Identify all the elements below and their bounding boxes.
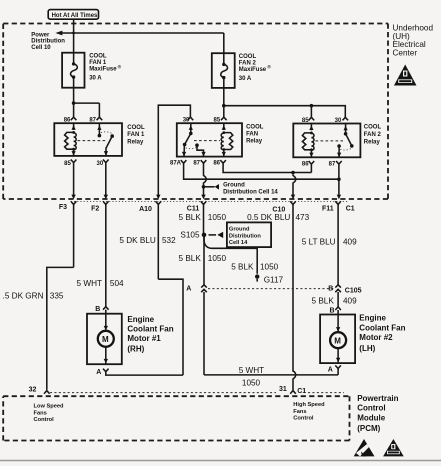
svg-text:COOL: COOL <box>364 125 382 131</box>
wire feed to fuse 2 <box>223 33 225 53</box>
svg-text:.5 DK GRN: .5 DK GRN <box>3 291 44 300</box>
svg-text:1050: 1050 <box>260 262 279 271</box>
wire fuse2 down to feed node <box>223 88 225 117</box>
wire label 5 BLK 1050 ground branch <box>231 262 278 271</box>
wire fuse1 to relay1 split <box>72 88 100 117</box>
wire label .5 DK GRN 335 <box>3 291 64 300</box>
connector dotted line under UH border <box>74 201 348 203</box>
relay K1 COOL FAN 1 Relay <box>54 117 122 167</box>
warning triangle icon UH <box>394 65 417 86</box>
wire 5 WHT 1050 bottom bus <box>204 374 338 376</box>
svg-text:85: 85 <box>64 161 71 167</box>
svg-text:C105: C105 <box>345 288 362 295</box>
PCM pin 32 caret <box>29 387 50 394</box>
svg-text:5 BLK: 5 BLK <box>178 254 201 263</box>
coil with parallel resistor <box>310 124 312 131</box>
svg-text:Fans: Fans <box>293 409 306 415</box>
svg-text:FAN 2: FAN 2 <box>364 132 382 138</box>
svg-text:5 WHT: 5 WHT <box>239 366 264 375</box>
svg-text:Powertrain: Powertrain <box>357 394 398 403</box>
label COOL FAN Relay <box>246 124 264 144</box>
node fuse2 feed <box>222 104 226 108</box>
svg-text:MaxiFuse: MaxiFuse <box>89 67 117 73</box>
svg-text:473: 473 <box>296 213 310 222</box>
connector C11 <box>187 201 207 235</box>
svg-text:(RH): (RH) <box>127 344 144 353</box>
branch S105 to ground G117 <box>204 237 257 274</box>
svg-text:Control: Control <box>357 404 385 413</box>
svg-text:Relay: Relay <box>246 139 263 145</box>
wire label 5 WHT 1050 <box>239 366 264 388</box>
wire 532 jog right and down to motor1 A line <box>158 279 183 375</box>
svg-text:87A: 87A <box>170 161 182 167</box>
label fuse 2 <box>239 54 271 82</box>
dashed coil link <box>316 140 344 142</box>
pin 87 caret <box>97 117 103 120</box>
svg-text:F2: F2 <box>91 206 99 213</box>
svg-text:335: 335 <box>50 291 64 300</box>
svg-text:1050: 1050 <box>208 213 227 222</box>
svg-text:85: 85 <box>302 118 309 124</box>
wire relay1 pin85 down to F3 <box>71 163 75 200</box>
relay K3 COOL FAN 2 Relay <box>293 117 360 167</box>
wire label 5 DK BLU 532 <box>119 236 176 245</box>
svg-text:C11: C11 <box>187 205 200 212</box>
svg-text:Distribution: Distribution <box>229 233 261 239</box>
svg-text:85: 85 <box>214 118 221 124</box>
svg-text:Engine: Engine <box>359 314 386 323</box>
svg-text:A: A <box>96 369 101 376</box>
label Underhood (UH) Electrical Center <box>393 24 434 58</box>
power feed arrow line to Power Distribution <box>55 31 223 36</box>
pin 30 caret <box>188 117 194 120</box>
wire relay2 87A to high-speed bus <box>184 163 338 179</box>
motor M1 Engine Coolant Fan Motor #1 (RH) <box>87 306 122 376</box>
svg-text:86: 86 <box>213 161 220 167</box>
svg-text:87: 87 <box>329 161 336 167</box>
svg-text:Relay: Relay <box>127 139 144 145</box>
label High Speed Fans Control <box>293 402 325 422</box>
dotted travel arc <box>340 149 351 150</box>
wire A10 riser up and over to relay2 pin 30 <box>158 105 190 195</box>
label Engine Coolant Fan Motor #2 (LH) <box>359 314 405 353</box>
svg-text:®: ® <box>118 64 122 71</box>
svg-text:5 WHT: 5 WHT <box>77 279 102 288</box>
svg-text:Control: Control <box>293 416 314 422</box>
svg-text:B: B <box>95 306 100 313</box>
svg-text:5 DK BLU: 5 DK BLU <box>119 236 155 245</box>
svg-text:Motor #2: Motor #2 <box>359 333 393 342</box>
connector C10 <box>272 201 295 372</box>
fuse F1 COOL FAN 1 MaxiFuse 30A <box>62 53 84 88</box>
svg-text:F3: F3 <box>59 204 67 211</box>
svg-text:30: 30 <box>97 161 104 167</box>
dashed coil link <box>78 140 108 142</box>
svg-text:High Speed: High Speed <box>293 402 325 408</box>
svg-text:COOL: COOL <box>89 54 107 60</box>
svg-text:Low Speed: Low Speed <box>34 404 65 410</box>
svg-text:Distribution Cell 14: Distribution Cell 14 <box>223 190 278 196</box>
connector F11 <box>322 201 341 285</box>
label Low Speed Fans Control <box>34 404 65 424</box>
svg-text:0.5 DK BLU: 0.5 DK BLU <box>247 213 290 222</box>
svg-text:5 BLK: 5 BLK <box>311 297 334 306</box>
feed line to relay3 <box>224 106 345 117</box>
svg-text:B: B <box>330 307 335 314</box>
svg-text:31: 31 <box>279 386 287 393</box>
node relay3 87 junction <box>337 177 341 181</box>
svg-text:A10: A10 <box>139 206 152 213</box>
svg-text:30 A: 30 A <box>239 76 252 82</box>
coil with parallel resistor <box>73 123 75 130</box>
svg-text:5 BLK: 5 BLK <box>231 262 254 271</box>
splice S105 <box>180 231 206 240</box>
svg-text:86: 86 <box>302 161 309 167</box>
svg-text:Cell 10: Cell 10 <box>31 45 51 51</box>
wire label 5 BLK 409 below C105 <box>311 297 357 306</box>
contact 87 with arrow <box>337 144 341 148</box>
svg-text:Module: Module <box>357 413 386 422</box>
svg-text:FAN 1: FAN 1 <box>127 132 145 138</box>
wire label 5 BLK 1050 below S105 <box>178 254 226 263</box>
svg-text:87: 87 <box>89 118 96 124</box>
relay K2 COOL FAN Relay <box>170 117 242 167</box>
svg-text:MaxiFuse: MaxiFuse <box>239 67 267 73</box>
svg-text:87: 87 <box>193 161 200 167</box>
ESD warning icon <box>354 439 375 456</box>
wire A10 arrowhead at border <box>156 195 160 200</box>
pin 87A caret <box>181 160 187 163</box>
reference arrow to ground distribution box <box>209 232 224 238</box>
svg-text:30 A: 30 A <box>89 75 102 81</box>
svg-text:COOL: COOL <box>127 125 145 131</box>
wire C10 down with hop over high-speed bus <box>291 174 296 199</box>
pin 30 caret <box>343 117 349 120</box>
svg-text:30: 30 <box>335 118 342 124</box>
svg-text:®: ® <box>267 63 271 70</box>
svg-text:Power: Power <box>31 33 50 39</box>
node C10 tap <box>291 171 295 175</box>
pin 85 caret <box>309 117 315 120</box>
svg-text:30: 30 <box>183 118 190 124</box>
svg-text:FAN 1: FAN 1 <box>89 60 107 66</box>
label fuse 1 <box>89 54 121 82</box>
dotted travel arc <box>101 132 112 133</box>
svg-text:532: 532 <box>162 236 176 245</box>
svg-text:1050: 1050 <box>208 254 227 263</box>
dashed coil link <box>194 140 220 142</box>
wire feed to fuse 1 <box>73 33 75 53</box>
connector A10 <box>139 201 161 279</box>
pin 85 caret <box>221 117 227 120</box>
node: feed junction above fuse 1 <box>72 32 75 35</box>
svg-text:F11: F11 <box>322 205 334 212</box>
wire relay2 87 down with hop to C11 <box>201 163 206 199</box>
svg-text:86: 86 <box>64 118 71 124</box>
ground G117 <box>255 274 284 284</box>
connector F3 <box>59 201 77 267</box>
pin 86 caret <box>71 117 77 120</box>
fuse F2 COOL FAN 2 MaxiFuse 30A <box>212 53 235 88</box>
pin 87 caret <box>336 161 342 164</box>
underhood electrical center dashed box <box>3 24 388 200</box>
wire relay3 86 down to bus <box>310 164 312 172</box>
svg-text:COOL: COOL <box>246 124 264 130</box>
dotted travel arc <box>186 148 196 149</box>
pin 30 caret <box>103 160 109 163</box>
label COOL FAN 1 Relay <box>127 125 145 145</box>
Hot At All Times box <box>48 10 98 20</box>
svg-text:Center: Center <box>393 48 418 57</box>
label COOL FAN 2 Relay <box>364 125 382 146</box>
label Powertrain Control Module (PCM) <box>357 394 398 433</box>
svg-text:FAN 2: FAN 2 <box>239 61 257 67</box>
wire relay1 pin30 down to F2 <box>104 163 108 200</box>
label Engine Coolant Fan Motor #1 (RH) <box>127 315 173 354</box>
node relay3 coil feed <box>310 104 314 108</box>
wire S105 down to C105 pin A <box>203 235 205 285</box>
wire label 5 BLK 1050 upper <box>178 213 226 222</box>
svg-text:Motor #1: Motor #1 <box>127 334 161 343</box>
svg-text:Fans: Fans <box>34 410 47 416</box>
switch contact 87 <box>98 123 100 135</box>
svg-text:32: 32 <box>29 387 37 394</box>
svg-text:G117: G117 <box>264 275 284 284</box>
svg-text:Cell 14: Cell 14 <box>229 240 248 246</box>
switch: pin30 line, arm closed to 87A <box>190 123 192 133</box>
wire from Hot At All Times down to feed line <box>73 19 75 33</box>
svg-text:C1: C1 <box>297 388 306 395</box>
wire drop to relay3 pin 85 <box>310 106 312 117</box>
connector C105 pin B <box>328 285 361 307</box>
svg-text:Coolant Fan: Coolant Fan <box>359 323 405 332</box>
svg-text:C1: C1 <box>346 205 355 212</box>
contact 87 <box>195 143 199 147</box>
svg-text:504: 504 <box>110 279 124 288</box>
svg-text:409: 409 <box>343 237 357 246</box>
wire label 5 WHT 504 <box>77 279 124 288</box>
svg-text:M: M <box>102 335 109 344</box>
wire C10 hop over bottom bus down to PCM 31 <box>293 371 296 390</box>
svg-text:5 BLK: 5 BLK <box>178 213 201 222</box>
page divider line <box>0 460 441 462</box>
svg-text:(LH): (LH) <box>359 344 375 353</box>
svg-text:Ground: Ground <box>229 227 250 233</box>
wire label 0.5 DK BLU 473 <box>247 213 310 222</box>
svg-text:Distribution: Distribution <box>31 39 65 45</box>
svg-text:Coolant Fan: Coolant Fan <box>127 325 173 334</box>
svg-text:B: B <box>328 286 333 293</box>
wire F3 jog left down to PCM pin 32 <box>47 267 74 389</box>
svg-text:M: M <box>334 337 341 346</box>
svg-text:5 LT BLU: 5 LT BLU <box>302 237 336 246</box>
wire relay3 87 down to F11 <box>337 164 341 199</box>
svg-text:Ground: Ground <box>223 183 245 189</box>
wire relay2 86 to relay3 86 bus <box>223 163 311 172</box>
wire label 5 LT BLU 409 <box>302 237 357 246</box>
svg-text:Relay: Relay <box>364 140 381 146</box>
pin 87 caret <box>201 160 207 163</box>
svg-text:A: A <box>186 286 191 293</box>
switch: pin30 line, arm open <box>345 124 347 134</box>
coil with parallel resistor <box>223 123 225 130</box>
wire motor1 A to 532 riser <box>106 372 183 375</box>
boxed label Ground Distribution Cell 14 <box>227 222 271 247</box>
svg-text:1050: 1050 <box>242 379 261 388</box>
connector F2 <box>91 201 109 306</box>
svg-text:409: 409 <box>343 297 357 306</box>
pin 86 caret <box>309 161 315 164</box>
warning triangle icon PCM <box>383 439 404 456</box>
label Ground Distribution Cell 14 <box>223 183 278 196</box>
svg-text:FAN: FAN <box>246 132 258 138</box>
label Power Distribution Cell 10 <box>31 33 65 51</box>
PCM connector dotted line <box>50 392 276 394</box>
svg-text:Hot At All Times: Hot At All Times <box>52 13 98 19</box>
motor M2 Engine Coolant Fan Motor #2 (LH) <box>320 307 355 374</box>
pin 86 caret <box>220 160 226 163</box>
svg-text:A: A <box>328 367 333 374</box>
svg-text:Engine: Engine <box>127 315 154 324</box>
svg-text:Control: Control <box>34 417 55 423</box>
connector C105 pin A <box>186 285 207 375</box>
pin 85 caret <box>71 160 77 163</box>
powertrain control module dashed box <box>3 396 349 440</box>
svg-text:(PCM): (PCM) <box>357 424 380 433</box>
PCM pin 31 caret <box>279 386 306 395</box>
svg-text:COOL: COOL <box>239 54 257 60</box>
ground distribution reference arrow <box>204 184 220 190</box>
switch arm from pin 30 <box>110 134 114 138</box>
svg-text:S105: S105 <box>180 231 200 240</box>
in-line connector C105 dotted line <box>208 288 334 290</box>
